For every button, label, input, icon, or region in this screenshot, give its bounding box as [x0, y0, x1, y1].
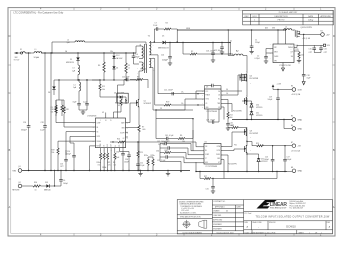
connector E6 GND: [291, 125, 303, 131]
svg-text:TMR: TMR: [217, 103, 220, 105]
svg-text:R2: R2: [191, 51, 193, 53]
ground under C1: [249, 52, 253, 54]
svg-text:U1: U1: [102, 112, 104, 114]
svg-text:R15: R15: [296, 49, 299, 51]
svg-text:F1: F1: [20, 49, 22, 51]
title block: [177, 200, 332, 235]
capacitor C2 0.22uF: [255, 53, 268, 61]
capacitor C34 100nF: [115, 141, 125, 171]
svg-text:SS: SS: [97, 131, 99, 133]
svg-text:SNUB: SNUB: [186, 28, 190, 30]
wire vertical feed to A2: [228, 29, 235, 55]
svg-text:51k: 51k: [51, 112, 54, 114]
resistor R9: [130, 76, 148, 80]
wire GND rail E5: [232, 119, 292, 121]
resistor R5: [125, 52, 130, 80]
diode D4a 1N4148W: [114, 92, 127, 118]
svg-text:2.2nF: 2.2nF: [153, 25, 157, 27]
svg-text:FDC637PN: FDC637PN: [228, 163, 237, 165]
svg-text:C41, 0.1µF: C41, 0.1µF: [165, 135, 173, 137]
svg-text:0.22µF: 0.22µF: [255, 58, 260, 60]
svg-text:FDC637BN: FDC637BN: [233, 111, 242, 113]
svg-text:R17: R17: [231, 125, 234, 127]
svg-text:E6: E6: [291, 125, 293, 127]
resistor R8b under U1: [113, 153, 116, 171]
svg-text:2.2µF: 2.2µF: [40, 130, 44, 132]
svg-text:RV2: RV2: [166, 102, 169, 104]
capacitor C28: [40, 52, 47, 171]
svg-text:FB: FB: [205, 150, 207, 152]
svg-text:ENGINEER: ENGINEER: [213, 224, 222, 226]
svg-text:APPROVED: APPROVED: [321, 15, 332, 18]
svg-text:FDC637BN: FDC637BN: [250, 78, 259, 80]
svg-text:LTC4257-1CS8: LTC4257-1CS8: [279, 65, 291, 67]
svg-text:SHEET: SHEET: [299, 232, 304, 234]
svg-text:VIN: VIN: [205, 146, 207, 148]
wire E6 spur: [283, 119, 292, 129]
ground under C23: [211, 60, 215, 62]
svg-text:EFD25: EFD25: [141, 69, 146, 71]
ground under C31: [211, 191, 215, 193]
transistor Q6b parallel: [240, 74, 247, 82]
svg-text:UPS120: UPS120: [256, 107, 262, 109]
svg-text:R20b: R20b: [102, 167, 106, 169]
resistor R25a: [144, 155, 149, 171]
svg-text:DLY: DLY: [111, 144, 113, 147]
svg-text:FB: FB: [97, 127, 99, 129]
svg-text:Si7850DP: Si7850DP: [144, 103, 152, 105]
svg-text:MBR140: MBR140: [44, 189, 51, 191]
svg-text:1: 1: [321, 232, 322, 234]
resistor R20a under U1: [97, 153, 102, 171]
wire snubber verticals: [154, 29, 178, 43]
capacitor C13 OPT: [60, 150, 68, 171]
svg-text:VCC: VCC: [206, 91, 209, 93]
svg-text:100: 100: [301, 55, 304, 57]
ground under C16: [226, 128, 230, 130]
frame inner border: [11, 10, 333, 233]
svg-text:R13: R13: [115, 103, 118, 105]
svg-text:2.2µF: 2.2µF: [83, 101, 87, 103]
svg-text:100µF: 100µF: [66, 153, 71, 155]
wires U1 left pin fan: [56, 80, 96, 171]
ground under C8 C9: [79, 110, 87, 114]
capacitor C31: [206, 178, 215, 191]
svg-text:C: C: [9, 92, 11, 95]
svg-text:VPP: VPP: [274, 47, 277, 49]
inductor L3 1uH: [72, 60, 80, 80]
ground under C2: [264, 61, 268, 63]
svg-text:Fax: (408) 434-0507: Fax: (408) 434-0507: [290, 208, 304, 210]
svg-text:RT: RT: [218, 162, 220, 164]
svg-text:10k: 10k: [102, 89, 105, 91]
svg-text:C15: C15: [309, 49, 312, 51]
wire secondary top row: [152, 42, 163, 44]
capacitor C30 100nF: [156, 146, 204, 155]
svg-text:CG: CG: [218, 95, 220, 97]
svg-text:SYNC: SYNC: [206, 99, 210, 101]
resistor R24: [110, 139, 204, 147]
svg-text:GND: GND: [298, 119, 303, 121]
capacitor C32 OPT: [314, 45, 327, 54]
capacitor C10 470pF: [132, 52, 140, 61]
svg-text:FDC637BP: FDC637BP: [250, 133, 259, 135]
svg-text:PGND: PGND: [216, 154, 220, 156]
resistor R23: [137, 141, 143, 162]
svg-text:GND: GND: [205, 162, 208, 164]
svg-text:U6: U6: [205, 141, 207, 143]
pin number speckle: [18, 30, 294, 185]
resistor R12 timer: [227, 110, 233, 121]
svg-text:C26: C26: [23, 122, 26, 124]
resistor R7 sense: [138, 110, 146, 171]
svg-text:+5V: +5V: [326, 34, 330, 36]
svg-text:E7: E7: [291, 142, 293, 144]
svg-text:MURS120: MURS120: [66, 62, 74, 64]
svg-text:DATE: DATE: [308, 15, 314, 18]
wire sense row 1: [152, 55, 205, 95]
frame tick marks left and right: [8, 65, 336, 179]
svg-text:3.3V: 3.3V: [298, 89, 303, 91]
diode D12 UPS120: [246, 153, 267, 172]
op-amp U6 LTC3723 chip body: [204, 141, 221, 167]
svg-text:R28: R28: [66, 109, 69, 111]
diode D3: [112, 52, 123, 60]
svg-text:C15 10nF: C15 10nF: [122, 76, 129, 78]
svg-text:D4: D4: [116, 67, 118, 69]
resistor R13: [115, 96, 122, 105]
svg-text:DESCRIPTION: DESCRIPTION: [275, 16, 289, 18]
ground hanging at 168: [166, 171, 170, 176]
connector E4 +5V: [302, 30, 330, 40]
svg-text:.XXX ±.005: .XXX ±.005: [181, 210, 189, 212]
node +VIN net arrow: [14, 52, 21, 62]
wire vertical from +VIN row down: [50, 52, 51, 171]
svg-text:CS+: CS+: [181, 92, 184, 94]
transistor Q5: [292, 27, 321, 38]
capacitor C36 under U1: [124, 155, 131, 171]
svg-text:OC: OC: [123, 138, 125, 140]
ground under C22: [220, 52, 224, 54]
svg-text:220µF: 220µF: [255, 42, 260, 44]
wire U6 feed row: [151, 62, 153, 64]
svg-text:1: 1: [309, 232, 310, 234]
frame tick marks bottom: [74, 233, 294, 236]
svg-text:NC: NC: [218, 99, 220, 101]
svg-text:R27: R27: [204, 176, 207, 178]
svg-text:C30: C30: [156, 150, 159, 152]
diode D11 UPS120: [250, 112, 262, 121]
svg-text:100µF: 100µF: [162, 60, 169, 62]
connector E2 RETURN: [12, 182, 22, 192]
svg-text:C32: C32: [324, 49, 327, 51]
capacitor C15 OPT: [294, 45, 316, 54]
svg-text:100nF: 100nF: [124, 162, 129, 164]
capacitor C12 2.2uF: [136, 162, 144, 171]
diode D5 MBRS3100: [158, 35, 230, 49]
connector E7 -5V: [291, 142, 301, 153]
capacitor C14 100uF: [66, 143, 76, 171]
node +3.3V arrow feed: [272, 84, 282, 90]
svg-text:OPT: OPT: [309, 52, 312, 54]
inductor L2: [272, 27, 292, 31]
svg-text:3.3µH: 3.3µH: [34, 57, 40, 59]
svg-text:OF: OF: [315, 232, 317, 234]
svg-text:UPS120: UPS120: [256, 115, 262, 117]
svg-text:100: 100: [230, 117, 233, 119]
connector E1 VIN: [12, 166, 21, 172]
capacitor C41 0.1uF: [156, 135, 178, 143]
resistor R27: [199, 171, 224, 180]
resistor R6a feedback: [178, 130, 193, 143]
op-amp U5 LTC3900 chip body: [205, 87, 222, 113]
resistor R26: [160, 148, 204, 159]
capacitor C19 100uF: [268, 90, 280, 121]
svg-text:P.C.B./A.W. HISTORY: P.C.B./A.W. HISTORY: [279, 11, 298, 14]
wire clamp bottom row: [92, 61, 139, 81]
svg-text:100nF: 100nF: [115, 157, 120, 159]
capacitor C1 220uF: [250, 29, 260, 51]
capacitor C17 2.2uF: [157, 155, 204, 163]
svg-text:.X ±.030 .XX ±.010: .X ±.030 .XX ±.010: [181, 208, 194, 210]
capacitor C25 100uF: [264, 145, 274, 172]
svg-text:15µF: 15µF: [73, 101, 77, 103]
wire +VIN row into T1: [136, 46, 139, 53]
fuse F1: [18, 49, 32, 54]
svg-text:L3: L3: [73, 68, 75, 70]
transistor Q9: [228, 136, 247, 172]
svg-text:SLOPE: SLOPE: [120, 132, 124, 134]
svg-text:VIN+: VIN+: [110, 51, 113, 53]
svg-text:R6: R6: [180, 135, 182, 137]
node terminal square: [321, 44, 331, 47]
wires U1 right pins: [106, 103, 139, 137]
ground under R15: [297, 61, 301, 63]
svg-text:GND: GND: [298, 128, 303, 130]
svg-text:15µF: 15µF: [307, 77, 311, 79]
diode D4: [112, 59, 118, 80]
ground symbols on bottom rail: [138, 171, 142, 176]
svg-text:DWG NO: DWG NO: [269, 222, 276, 224]
resistor R12: [99, 79, 118, 97]
wire E8 spur: [287, 170, 292, 172]
svg-text:TELCOM INPUT,ISOLATED OUTPUT C: TELCOM INPUT,ISOLATED OUTPUT CONVERTER,2…: [255, 215, 330, 218]
svg-text:BLK: BLK: [107, 144, 109, 147]
inductor L2a 1uH: [67, 39, 85, 44]
transistor Q7: [233, 97, 247, 120]
inductor L4 1uH: [73, 80, 81, 91]
capacitor C27 100uF: [283, 145, 291, 172]
wire secondary ground rail: [196, 171, 287, 173]
net label speckle: [65, 27, 268, 147]
wire U4 feed: [266, 29, 286, 53]
wire E2 vertical to rail: [54, 170, 55, 187]
transistor Q6: [242, 72, 259, 97]
capacitor C6 100uF: [59, 170, 68, 186]
svg-text:MBRS3100T3: MBRS3100T3: [158, 48, 169, 50]
svg-text:OUTB: OUTB: [216, 150, 220, 152]
wire U6 lower-left pins to rail: [160, 161, 196, 171]
resistor RV2: [164, 102, 171, 106]
svg-text:ISNS: ISNS: [121, 128, 124, 130]
svg-text:VPN: VPN: [274, 60, 277, 62]
svg-text:D8: D8: [48, 92, 50, 94]
svg-text:D13: D13: [45, 182, 48, 184]
svg-text:SIG: SIG: [291, 56, 293, 58]
op-amp U4 LTC4257 chip body: [273, 44, 298, 67]
capacitor C9 15uF: [73, 79, 81, 110]
svg-text:db: db: [226, 211, 228, 213]
svg-text:C: C: [333, 92, 335, 95]
svg-text:U2: U2: [118, 105, 120, 107]
wire feedback row: [155, 109, 193, 151]
svg-text:L2: L2: [67, 39, 69, 41]
wire T1 lower secondary to U5: [152, 68, 205, 111]
svg-text:D: D: [9, 35, 11, 38]
op-amp U1 LT1950 chip body: [87, 112, 126, 148]
svg-text:LT1950EGN: LT1950EGN: [87, 116, 97, 118]
frame tick marks top: [74, 7, 294, 10]
opto U2 box: [117, 93, 128, 107]
svg-text:Q6 FDC637PN: Q6 FDC637PN: [301, 27, 313, 29]
svg-text:COMP: COMP: [97, 122, 101, 124]
svg-text:Q: Q: [293, 30, 294, 32]
wire top rail: [51, 42, 146, 54]
connector E3 3.3V: [291, 86, 302, 97]
svg-text:+3.3V @ 3A: +3.3V @ 3A: [291, 93, 301, 96]
svg-text:V5: V5: [230, 40, 232, 42]
wire sense row 2 with RV2: [152, 59, 205, 106]
svg-text:1-May: 1-May: [308, 19, 313, 21]
svg-text:DC4010: DC4010: [286, 225, 296, 229]
svg-text:C28: C28: [41, 122, 44, 124]
svg-text:R4: R4: [166, 22, 168, 24]
svg-text:Phone: (408) 432-1900: Phone: (408) 432-1900: [290, 205, 306, 207]
capacitor C16: [226, 121, 233, 128]
mid col dividers: [212, 204, 243, 206]
transistor Q8: [242, 128, 259, 137]
wire aux node row: [54, 79, 100, 80]
resistor R28: [63, 107, 69, 113]
svg-text:SYNC: SYNC: [97, 136, 101, 138]
svg-text:CT: CT: [205, 158, 207, 160]
svg-text:C32, 100nF: C32, 100nF: [157, 141, 166, 143]
svg-text:FG2: FG2: [234, 145, 237, 147]
wires U1 bottom pin stubs: [101, 148, 129, 171]
third angle projection symbol: [182, 220, 207, 229]
capacitor C21 100nF: [164, 90, 173, 96]
resistor R29: [52, 148, 60, 154]
svg-text:GND: GND: [206, 107, 209, 109]
svg-text:-5V @ 0.5A: -5V @ 0.5A: [291, 149, 301, 152]
svg-text:E5: E5: [291, 116, 293, 118]
svg-text:3300pF: 3300pF: [21, 130, 27, 132]
wire bottom loop row: [224, 172, 277, 179]
svg-text:C34: C34: [116, 151, 119, 153]
svg-text:D: D: [333, 35, 335, 38]
capacitor C7 snubber: [153, 22, 158, 30]
svg-text:OPT: OPT: [324, 52, 327, 54]
diode D8 MURS160: [48, 80, 56, 95]
svg-text:VD: VD: [160, 108, 162, 110]
transformer T1 EFD25: [139, 36, 152, 73]
frame zone letters: [9, 8, 335, 237]
wires U5 right pins: [221, 75, 242, 120]
svg-text:C37, 1µF: C37, 1µF: [158, 144, 165, 146]
resistor R16: [51, 107, 58, 114]
svg-text:100µF: 100µF: [268, 99, 273, 101]
svg-text:R6: R6: [98, 65, 100, 67]
svg-text:R19: R19: [256, 143, 259, 145]
svg-text:1A 100V: 1A 100V: [116, 57, 123, 60]
svg-text:PROTO: PROTO: [278, 19, 285, 21]
svg-text:10: 10: [35, 189, 37, 191]
capacitor C24 100uF: [161, 42, 172, 63]
diode D13: [41, 182, 61, 191]
svg-text:LTC3727EMS8: LTC3727EMS8: [206, 166, 217, 168]
connector E8 GND: [291, 167, 303, 173]
connector E5 GND: [291, 116, 303, 122]
svg-text:R23: R23: [140, 152, 143, 154]
wires U6 right pins: [221, 132, 242, 179]
resistor R19: [252, 143, 292, 147]
svg-text:.040: .040: [142, 129, 145, 131]
svg-text:E4: E4: [321, 30, 323, 32]
capacitor C23 100nF: [206, 42, 215, 60]
svg-text:SHDN: SHDN: [274, 52, 278, 54]
revision history table: [243, 10, 334, 25]
right col dividers: [244, 210, 333, 212]
svg-text:100µF: 100µF: [264, 159, 269, 161]
svg-text:SIZE: SIZE: [244, 222, 247, 224]
ground arrow under C18: [302, 82, 305, 85]
svg-text:C24: C24: [161, 54, 164, 56]
svg-text:C31: C31: [206, 188, 209, 190]
capacitor C32 100nF: [157, 141, 204, 151]
capacitor C15 10nF: [122, 76, 129, 85]
wire +VIN row: [26, 52, 32, 54]
wire E3 row: [273, 89, 292, 90]
resistor R25b: [148, 155, 155, 171]
svg-text:D4 1N4148W: D4 1N4148W: [114, 92, 125, 94]
capacitor C29 100nF: [206, 109, 219, 124]
transistor Q1 main switch: [136, 71, 152, 110]
capacitor C8 2.2uF: [83, 79, 89, 110]
svg-text:OPT: OPT: [60, 166, 63, 168]
capacitor C18 15uF: [302, 34, 310, 82]
wire 3V3 rail from snubber node: [177, 29, 284, 31]
svg-text:CHECKED: CHECKED: [213, 215, 222, 217]
resistor R17: [228, 125, 247, 129]
wire primary bottom rail: [22, 170, 190, 172]
svg-text:VC: VC: [104, 145, 106, 147]
wire middle column risers: [117, 80, 148, 98]
svg-text:VD: VD: [218, 107, 220, 109]
svg-text:R26: R26: [165, 150, 168, 152]
svg-text:+5V @ 2A: +5V @ 2A: [302, 37, 311, 40]
resistor R8: [61, 100, 66, 116]
svg-text:SL: SL: [115, 145, 117, 147]
wire E7 row spur: [246, 141, 252, 146]
resistor R14: [294, 49, 303, 61]
inductor A2: [234, 49, 247, 72]
svg-text:REF: REF: [217, 158, 220, 160]
svg-text:2.2µF: 2.2µF: [140, 165, 144, 167]
resistor R4 snubber: [158, 22, 177, 30]
svg-text:E3: E3: [291, 86, 293, 88]
diode D1 MURS120: [66, 52, 80, 64]
svg-text:COMP: COMP: [205, 154, 209, 156]
